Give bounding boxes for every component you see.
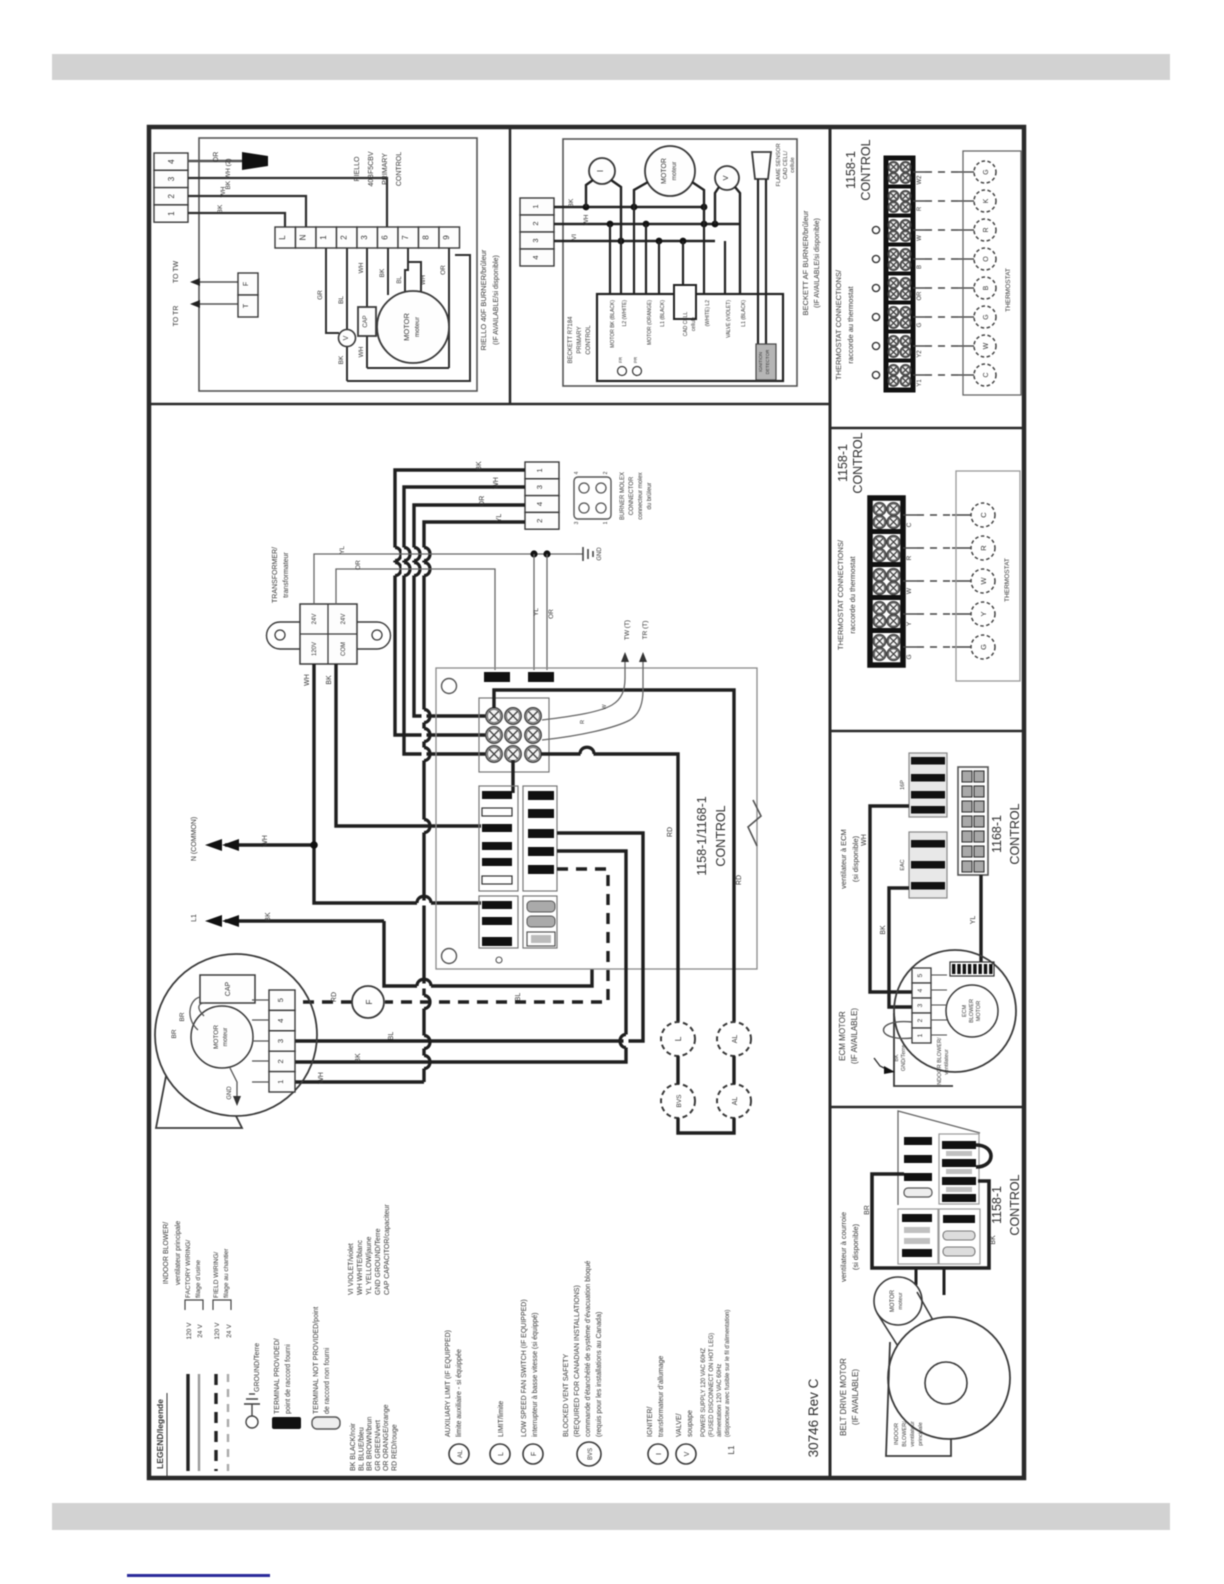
bus wire VI bbox=[554, 240, 715, 243]
control board outline bbox=[436, 668, 757, 969]
svg-text:BR: BR bbox=[864, 1205, 871, 1215]
wire from TS1-1 to terminal L bbox=[188, 213, 285, 227]
wire terminal1 to valve bbox=[326, 248, 339, 333]
wire drops to control box bbox=[609, 224, 611, 294]
board top connector bar 2 bbox=[528, 672, 554, 682]
svg-text:AL: AL bbox=[732, 1097, 739, 1106]
svg-text:4: 4 bbox=[574, 471, 580, 474]
svg-text:3: 3 bbox=[531, 238, 540, 242]
svg-text:V: V bbox=[343, 335, 350, 340]
wire OR from TS1-4 with arrow bbox=[188, 160, 242, 163]
svg-text:2: 2 bbox=[531, 221, 540, 225]
svg-text:24V: 24V bbox=[312, 614, 318, 625]
board mounting holes bbox=[442, 679, 457, 694]
indoor blower housing bbox=[155, 954, 317, 1116]
svg-text:interrupteur à basse vitesse (: interrupteur à basse vitesse (si équippé… bbox=[532, 1312, 539, 1437]
svg-text:G: G bbox=[983, 314, 990, 319]
hop WH line over bundle bbox=[417, 901, 431, 906]
ecm board edge connector bbox=[958, 767, 988, 875]
svg-text:2: 2 bbox=[603, 471, 609, 474]
svg-text:WH: WH bbox=[583, 214, 590, 225]
svg-text:120 V: 120 V bbox=[214, 1322, 221, 1340]
svg-text:OR: OR bbox=[213, 152, 220, 163]
svg-text:THERMOSTAT: THERMOSTAT bbox=[1004, 558, 1011, 602]
svg-text:1: 1 bbox=[603, 521, 609, 524]
svg-text:EAC: EAC bbox=[900, 859, 906, 870]
bus wire WH bbox=[554, 223, 740, 226]
svg-text:(disjoncteur avec fusible sur: (disjoncteur avec fusible sur le fil d’a… bbox=[725, 1310, 731, 1437]
svg-text:OR: OR bbox=[548, 609, 555, 619]
svg-text:BK BLACK/noir: BK BLACK/noir bbox=[350, 1422, 357, 1471]
svg-text:G: G bbox=[917, 322, 923, 327]
L wire from grid bbox=[541, 754, 678, 1022]
top gray header bar bbox=[52, 54, 1170, 80]
right column divider 2 bbox=[830, 730, 1024, 733]
igniter circle I bbox=[589, 158, 615, 184]
svg-text:C: C bbox=[983, 372, 990, 377]
svg-text:OR: OR bbox=[917, 291, 923, 301]
svg-text:4: 4 bbox=[167, 159, 176, 164]
svg-text:1: 1 bbox=[167, 211, 176, 216]
svg-text:Y: Y bbox=[906, 621, 913, 626]
ecm comb connector 2 bbox=[909, 832, 947, 898]
svg-text:C: C bbox=[979, 512, 988, 518]
bottom gray footer bar bbox=[52, 1503, 1170, 1530]
svg-text:TO TW: TO TW bbox=[173, 260, 180, 283]
legend terminal provided bar bbox=[272, 1417, 301, 1429]
board low connector cluster left bbox=[479, 896, 518, 948]
cad cell box on edge bbox=[674, 285, 696, 319]
svg-text:TERMINAL NOT PROVIDED/point: TERMINAL NOT PROVIDED/point bbox=[313, 1307, 320, 1414]
svg-text:RIELLO: RIELLO bbox=[354, 156, 361, 181]
svg-text:V: V bbox=[721, 175, 730, 180]
svg-text:IGNITION: IGNITION bbox=[758, 352, 763, 372]
svg-text:1: 1 bbox=[531, 204, 540, 208]
svg-text:BR: BR bbox=[179, 1012, 186, 1021]
BK wire board to motor t2 bbox=[295, 851, 626, 1062]
svg-text:MOTOR: MOTOR bbox=[890, 1289, 896, 1312]
svg-text:MOTOR: MOTOR bbox=[976, 1001, 982, 1021]
ecm strip to motor links bbox=[931, 974, 947, 976]
bottom wire rail 1 bbox=[367, 367, 449, 369]
panel1 terminal block bbox=[886, 158, 913, 390]
svg-text:FIELD WIRING/: FIELD WIRING/ bbox=[213, 1252, 220, 1298]
svg-text:16P: 16P bbox=[900, 780, 906, 790]
svg-text:BELT DRIVE MOTOR: BELT DRIVE MOTOR bbox=[839, 1358, 848, 1436]
svg-text:RD: RD bbox=[736, 875, 743, 885]
ecm motor plug comb bbox=[950, 962, 994, 976]
capacitor CAP box bbox=[358, 307, 376, 336]
svg-text:TO TR: TO TR bbox=[173, 306, 180, 327]
molex connector symbol bbox=[574, 477, 611, 519]
svg-text:L: L bbox=[498, 1452, 505, 1456]
svg-text:BL: BL bbox=[397, 276, 403, 284]
svg-text:YL YELLOW/jaune: YL YELLOW/jaune bbox=[366, 1237, 373, 1295]
svg-text:raccorde au thermostat: raccorde au thermostat bbox=[846, 286, 855, 364]
legend L symbol bbox=[490, 1444, 510, 1464]
svg-text:B: B bbox=[983, 285, 990, 290]
legend ground symbol bbox=[246, 1416, 258, 1428]
legend V symbol bbox=[676, 1444, 696, 1464]
svg-text:WH: WH bbox=[304, 674, 311, 686]
TW hook wire bbox=[542, 660, 625, 720]
BVS-AL bottom link bbox=[678, 1118, 734, 1133]
svg-text:GND/Terre: GND/Terre bbox=[901, 1045, 907, 1071]
svg-text:limite auxiliaire - si équippé: limite auxiliaire - si équippée bbox=[456, 1349, 463, 1437]
svg-text:VALVE/: VALVE/ bbox=[676, 1413, 683, 1437]
wire terminal3 to CAP bbox=[366, 248, 368, 307]
svg-text:R: R bbox=[979, 545, 988, 551]
svg-text:raccorde du thermostat: raccorde du thermostat bbox=[848, 556, 857, 634]
detector hatched box bbox=[756, 344, 776, 380]
svg-text:T: T bbox=[243, 303, 250, 308]
svg-text:Y: Y bbox=[979, 611, 988, 616]
divider: riello/beckett boxes bbox=[509, 127, 512, 404]
WH wire motor t1 to bundle bbox=[295, 1080, 424, 1083]
riello control terminal strip (9 cells) bbox=[275, 227, 296, 248]
svg-text:GR GREEN/vert: GR GREEN/vert bbox=[375, 1420, 382, 1471]
svg-text:WH: WH bbox=[861, 834, 868, 846]
board mid connector cluster right bbox=[523, 786, 557, 891]
svg-text:YL: YL bbox=[339, 546, 346, 554]
L1 wire to board bbox=[384, 921, 592, 986]
svg-text:OR: OR bbox=[355, 560, 362, 570]
svg-text:moteur: moteur bbox=[898, 1292, 904, 1309]
svg-text:4: 4 bbox=[531, 255, 540, 259]
panel1 thermostat box bbox=[963, 151, 1021, 395]
belt blower housing bbox=[888, 1317, 1010, 1439]
svg-text:120 V: 120 V bbox=[186, 1322, 193, 1340]
svg-text:N (COMMON): N (COMMON) bbox=[191, 817, 198, 861]
svg-text:3: 3 bbox=[574, 521, 580, 524]
svg-text:3: 3 bbox=[167, 176, 176, 181]
svg-text:B: B bbox=[917, 265, 923, 269]
panel1 dashed wires bbox=[913, 171, 925, 173]
ecm YL wire bbox=[979, 875, 982, 962]
svg-text:du brûleur: du brûleur bbox=[647, 482, 653, 509]
svg-text:L1: L1 bbox=[191, 914, 198, 922]
flame sensor bbox=[752, 152, 771, 179]
wire from TS1-2 to terminal N bbox=[188, 196, 306, 227]
L-BVS link bbox=[676, 1056, 679, 1084]
svg-text:MOTOR (ORANGE): MOTOR (ORANGE) bbox=[647, 300, 653, 345]
svg-text:BLOWER/: BLOWER/ bbox=[902, 1421, 908, 1447]
svg-text:4: 4 bbox=[276, 1019, 285, 1023]
thick wire bundle: OR bbox=[414, 505, 525, 716]
legend I symbol bbox=[648, 1444, 668, 1464]
svg-text:W2: W2 bbox=[917, 175, 923, 185]
svg-text:ventilateur principale: ventilateur principale bbox=[175, 1221, 182, 1285]
svg-text:7: 7 bbox=[401, 235, 410, 240]
svg-text:2: 2 bbox=[276, 1059, 285, 1063]
svg-text:THERMOSTAT CONNECTIONS/: THERMOSTAT CONNECTIONS/ bbox=[836, 539, 845, 650]
svg-text:LOW SPEED FAN SWITCH (IF EQUIP: LOW SPEED FAN SWITCH (IF EQUIPPED) bbox=[521, 1299, 528, 1437]
svg-text:TERMINAL PROVIDED/: TERMINAL PROVIDED/ bbox=[274, 1338, 281, 1414]
svg-text:GR: GR bbox=[317, 290, 324, 300]
svg-text:YL: YL bbox=[496, 514, 503, 523]
svg-text:ventilateur: ventilateur bbox=[910, 1421, 916, 1447]
svg-text:1: 1 bbox=[319, 235, 328, 240]
svg-text:BECKETT AF BURNER/brûleur: BECKETT AF BURNER/brûleur bbox=[801, 210, 810, 315]
legend line sample 24V factory bbox=[198, 1374, 200, 1471]
right column divider 1 bbox=[830, 427, 1024, 430]
svg-text:2: 2 bbox=[917, 1018, 924, 1022]
bottom wire rail 2 with right riser bbox=[347, 255, 470, 381]
svg-text:RD RED/rouge: RD RED/rouge bbox=[392, 1424, 399, 1471]
svg-text:(FUSED DISCONNECT ON HOT LEG): (FUSED DISCONNECT ON HOT LEG) bbox=[709, 1333, 715, 1437]
beckett burner inner box bbox=[563, 139, 797, 386]
svg-text:OR ORANGE/orange: OR ORANGE/orange bbox=[383, 1404, 390, 1471]
thick wire bundle from molex: BK bbox=[395, 470, 525, 735]
ecm comb connector 1 bbox=[909, 753, 947, 817]
svg-text:5: 5 bbox=[917, 973, 924, 977]
svg-text:1158-1: 1158-1 bbox=[990, 1186, 1004, 1224]
svg-text:VI VIOLET/violet: VI VIOLET/violet bbox=[348, 1243, 355, 1295]
svg-text:K: K bbox=[983, 198, 990, 203]
svg-text:Y1: Y1 bbox=[917, 379, 923, 387]
F fan switch circle bbox=[352, 986, 384, 1018]
hop L1 line over bundle bbox=[417, 984, 431, 989]
legend F symbol bbox=[523, 1444, 543, 1464]
svg-text:THERMOSTAT: THERMOSTAT bbox=[1005, 268, 1012, 312]
svg-text:WH WHITE/blanc: WH WHITE/blanc bbox=[357, 1240, 364, 1295]
svg-text:W: W bbox=[906, 587, 913, 594]
svg-text:YL: YL bbox=[970, 916, 977, 925]
svg-text:I: I bbox=[654, 1453, 663, 1455]
svg-text:MOTOR BK (BLACK): MOTOR BK (BLACK) bbox=[610, 300, 616, 348]
svg-text:120V: 120V bbox=[312, 642, 318, 656]
F/T switch box bbox=[238, 273, 258, 295]
svg-text:BK: BK bbox=[568, 198, 575, 207]
svg-text:BLOCKED VENT SAFETY: BLOCKED VENT SAFETY bbox=[563, 1354, 570, 1437]
svg-text:(IF AVAILABLE): (IF AVAILABLE) bbox=[851, 1369, 860, 1426]
svg-text:BL BLUE/bleu: BL BLUE/bleu bbox=[358, 1427, 365, 1471]
svg-text:LEGEND/legende: LEGEND/legende bbox=[155, 1399, 165, 1469]
svg-text:R: R bbox=[917, 206, 923, 211]
outer diagram frame bbox=[149, 127, 1024, 1478]
svg-text:PRIMARY: PRIMARY bbox=[382, 153, 389, 185]
svg-text:cellule: cellule bbox=[691, 317, 697, 331]
svg-text:RD: RD bbox=[331, 992, 338, 1002]
svg-text:POWER SUPPLY 120 VAC 60HZ: POWER SUPPLY 120 VAC 60HZ bbox=[701, 1348, 707, 1437]
svg-text:principale: principale bbox=[918, 1422, 924, 1446]
blower motor circle bbox=[191, 1006, 253, 1068]
svg-text:8: 8 bbox=[422, 235, 431, 240]
svg-text:THERMOSTAT CONNECTIONS/: THERMOSTAT CONNECTIONS/ bbox=[834, 269, 843, 380]
motor terminal strip 5 cells bbox=[269, 990, 295, 1010]
transformer 120V drop WH bbox=[314, 664, 481, 903]
svg-text:RD: RD bbox=[667, 827, 674, 837]
svg-text:BK: BK bbox=[880, 925, 887, 935]
svg-text:1: 1 bbox=[917, 1033, 924, 1037]
legend line sample 120V field dashed bbox=[214, 1374, 217, 1471]
svg-text:moteur: moteur bbox=[672, 162, 678, 181]
burner molex 4-cell strip bbox=[525, 462, 559, 479]
thick wire bundle: YL long drop bbox=[424, 522, 525, 1082]
svg-text:(si disponible): (si disponible) bbox=[851, 835, 860, 882]
panel2 terminal block bbox=[870, 498, 903, 665]
small indicator circles bbox=[618, 367, 627, 376]
YL/OR drops to board bbox=[533, 554, 535, 670]
svg-text:BL: BL bbox=[515, 993, 522, 1002]
BVS circle bbox=[661, 1084, 695, 1118]
svg-text:N: N bbox=[299, 234, 308, 240]
svg-text:BL: BL bbox=[338, 296, 345, 304]
thick wire bundle: WH bbox=[404, 487, 525, 754]
svg-text:alimentation 120 VAC 60Hz: alimentation 120 VAC 60Hz bbox=[717, 1364, 723, 1437]
TO TR arrow bbox=[196, 303, 238, 305]
svg-text:CAD CELL/: CAD CELL/ bbox=[783, 150, 789, 179]
board low connector cluster right (fuse) bbox=[523, 896, 557, 948]
ecm jumper loop bbox=[884, 1022, 913, 1039]
legend terminal not provided bar bbox=[312, 1417, 340, 1429]
BR leads bbox=[199, 1003, 205, 1016]
riello burner motor bbox=[377, 291, 449, 363]
svg-text:3: 3 bbox=[917, 1003, 924, 1007]
svg-text:MOTOR: MOTOR bbox=[213, 1025, 220, 1049]
svg-text:F: F bbox=[365, 999, 374, 1004]
svg-text:R: R bbox=[906, 555, 913, 560]
GND arrow blower bbox=[230, 1068, 237, 1098]
svg-text:BK: BK bbox=[217, 204, 224, 213]
svg-text:ventilateur à courroie: ventilateur à courroie bbox=[839, 1212, 848, 1282]
motor leads bbox=[634, 182, 648, 207]
right column divider 3 bbox=[830, 1106, 1024, 1109]
svg-text:G: G bbox=[983, 169, 990, 174]
svg-text:BK: BK bbox=[379, 268, 386, 277]
svg-text:6: 6 bbox=[381, 235, 390, 240]
board top connector bar 1 bbox=[484, 672, 510, 682]
svg-text:2: 2 bbox=[340, 235, 349, 240]
svg-text:W: W bbox=[983, 342, 990, 349]
svg-text:L: L bbox=[278, 235, 287, 240]
svg-text:24 V: 24 V bbox=[197, 1324, 204, 1338]
svg-text:de raccord non fourni: de raccord non fourni bbox=[324, 1347, 331, 1414]
svg-text:transformateur d’allumage: transformateur d’allumage bbox=[658, 1356, 665, 1437]
svg-text:CONNECTOR: CONNECTOR bbox=[629, 476, 635, 515]
svg-text:R: R bbox=[983, 227, 990, 232]
svg-text:TR (T): TR (T) bbox=[642, 621, 649, 640]
svg-text:MOTOR: MOTOR bbox=[661, 158, 668, 184]
ecm gnd arrow bbox=[874, 1058, 888, 1070]
AL-AL link bbox=[732, 1056, 735, 1084]
svg-text:W: W bbox=[917, 235, 923, 241]
transformer right ear bbox=[357, 622, 391, 649]
svg-text:YL: YL bbox=[533, 608, 540, 616]
svg-text:MOTOR: MOTOR bbox=[402, 313, 411, 341]
belt board lower right sub-box bbox=[939, 1209, 980, 1264]
belt jumper arc bbox=[976, 1145, 991, 1167]
ecm blower housing bbox=[894, 950, 1016, 1072]
svg-text:24 V: 24 V bbox=[226, 1324, 233, 1338]
flame sensor wires bbox=[757, 179, 759, 344]
svg-text:moteur: moteur bbox=[414, 316, 421, 337]
svg-text:2: 2 bbox=[535, 519, 544, 523]
BL wire board to motor t3 bbox=[295, 833, 643, 1041]
svg-text:CONTROL: CONTROL bbox=[714, 805, 728, 866]
svg-text:GND GROUND/Terre: GND GROUND/Terre bbox=[375, 1228, 382, 1295]
svg-text:1158-1: 1158-1 bbox=[844, 151, 858, 189]
svg-text:CAP: CAP bbox=[363, 315, 369, 327]
svg-text:connecteur molex: connecteur molex bbox=[638, 472, 644, 519]
svg-text:VI: VI bbox=[571, 234, 578, 240]
ecm motor circle bbox=[946, 985, 998, 1037]
svg-text:FACTORY WIRING/: FACTORY WIRING/ bbox=[185, 1240, 192, 1298]
AL circle bottom bbox=[717, 1084, 751, 1118]
beckett primary control box bbox=[597, 294, 783, 381]
svg-text:BK: BK bbox=[476, 461, 483, 471]
legend line sample 24V field dashed bbox=[227, 1374, 229, 1471]
belt board bars left col bbox=[904, 1137, 932, 1145]
svg-text:soupape: soupape bbox=[687, 1410, 694, 1437]
RD wire from grid to AL bbox=[494, 690, 734, 1022]
svg-text:(si disponible): (si disponible) bbox=[851, 1223, 860, 1270]
svg-text:PR: PR bbox=[633, 356, 638, 363]
svg-text:3: 3 bbox=[535, 485, 544, 489]
legend AL symbol bbox=[449, 1444, 469, 1464]
svg-text:filage d’usine: filage d’usine bbox=[195, 1260, 202, 1298]
belt motor circle bbox=[874, 1277, 922, 1325]
svg-text:BR BROWN/brun: BR BROWN/brun bbox=[367, 1416, 374, 1471]
beckett motor bbox=[645, 146, 695, 196]
svg-text:WH: WH bbox=[421, 275, 427, 285]
svg-text:BVS: BVS bbox=[588, 1448, 594, 1460]
panel1 thermostat circles bbox=[974, 161, 996, 183]
belt board right sub-box bbox=[939, 1134, 979, 1204]
svg-text:(IF AVAILABLE/si disponible): (IF AVAILABLE/si disponible) bbox=[493, 255, 500, 345]
bus wire BK bbox=[554, 206, 704, 209]
svg-text:WH: WH bbox=[493, 477, 500, 489]
wire terminal6 to motor bbox=[387, 248, 389, 295]
svg-text:BK: BK bbox=[326, 675, 333, 685]
thin 24V wire OR bbox=[336, 569, 495, 670]
blue footer link line bbox=[127, 1574, 270, 1577]
svg-text:(IF AVAILABLE): (IF AVAILABLE) bbox=[850, 1008, 859, 1065]
svg-text:1: 1 bbox=[535, 468, 544, 472]
svg-text:BK: BK bbox=[265, 912, 272, 922]
svg-text:TRANSFORMER/: TRANSFORMER/ bbox=[272, 547, 279, 603]
svg-text:INDOOR: INDOOR bbox=[894, 1423, 900, 1445]
svg-text:transformateur: transformateur bbox=[283, 552, 290, 598]
svg-text:GROUND/Terre: GROUND/Terre bbox=[254, 1343, 261, 1392]
thin 24V wire YL top bbox=[314, 554, 576, 604]
svg-text:30746 Rev C: 30746 Rev C bbox=[806, 1378, 821, 1457]
ecm motor terminal strip bbox=[912, 968, 931, 983]
svg-text:ECM: ECM bbox=[962, 1004, 968, 1017]
svg-text:1158-1: 1158-1 bbox=[836, 444, 850, 482]
svg-text:TW (T): TW (T) bbox=[624, 620, 631, 640]
screw terminal grid 3x3 bbox=[479, 698, 549, 772]
svg-text:OR: OR bbox=[479, 496, 486, 507]
svg-text:G: G bbox=[979, 644, 988, 650]
svg-text:BK: BK bbox=[894, 1054, 900, 1062]
legend bracket factory wiring bbox=[185, 1300, 203, 1310]
svg-text:DETECTOR: DETECTOR bbox=[765, 349, 770, 374]
hop BK vertical over BL wire bbox=[624, 1035, 629, 1048]
valve circle V bbox=[715, 166, 739, 190]
svg-text:INDOOR BLOWER/: INDOOR BLOWER/ bbox=[937, 1037, 943, 1086]
junction dots bbox=[583, 204, 590, 211]
svg-text:AL: AL bbox=[457, 1450, 464, 1458]
beckett terminal strip (4 cells) bbox=[520, 198, 554, 215]
terminal strip TS1 (4 cells) bbox=[154, 153, 188, 170]
panel2 thermostat box bbox=[956, 471, 1020, 681]
panel2 thermostat circles bbox=[971, 503, 995, 527]
svg-text:I: I bbox=[596, 170, 605, 172]
svg-text:(requis pour les installations: (requis pour les installations au Canada… bbox=[596, 1312, 603, 1437]
svg-text:CAD CELL: CAD CELL bbox=[683, 312, 689, 337]
svg-text:BK WH (2): BK WH (2) bbox=[225, 158, 232, 189]
